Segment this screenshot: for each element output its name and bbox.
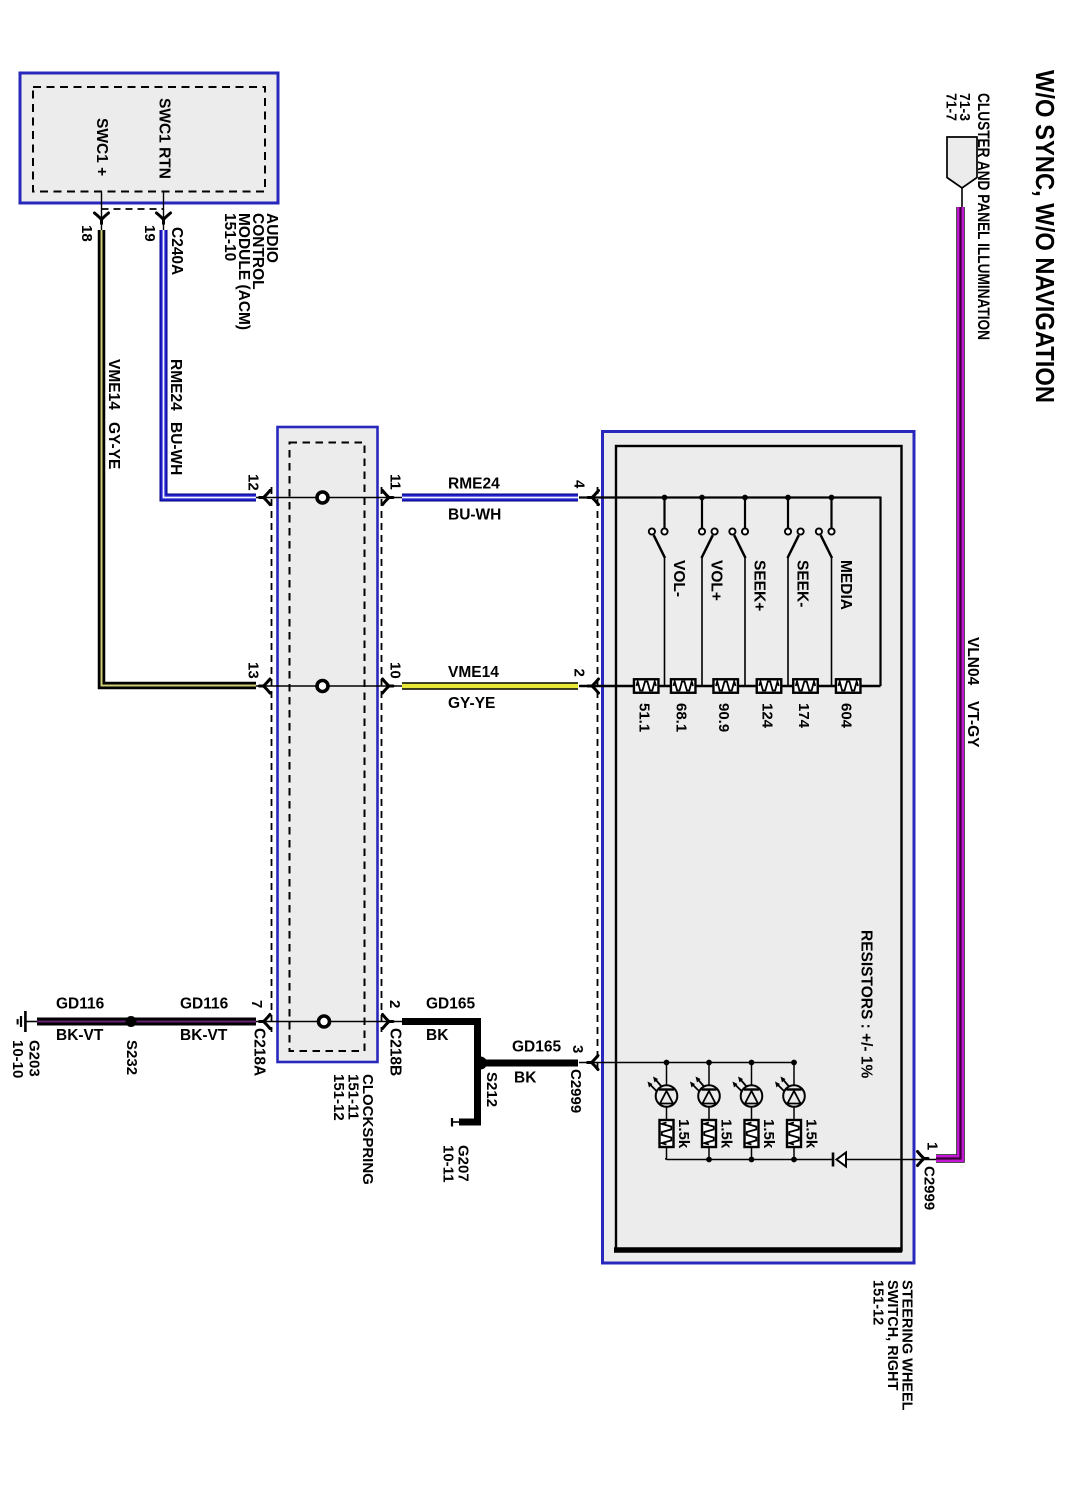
clockspring coil symbol row 1 bbox=[317, 492, 328, 503]
clockspring inner dashed boundary bbox=[290, 443, 365, 1052]
wire RME24 BU-WH from ACM pin 19 (vertical + horizontal) bbox=[164, 230, 257, 498]
svg-text:RME24: RME24 bbox=[448, 476, 500, 493]
switch SEEK- bbox=[787, 498, 789, 529]
svg-text:RESISTORS : +/- 1%: RESISTORS : +/- 1% bbox=[858, 930, 875, 1079]
switch VOL+ bbox=[701, 498, 703, 529]
connector C218B dashed line bbox=[381, 487, 383, 1032]
svg-text:BK: BK bbox=[514, 1070, 537, 1087]
svg-text:GD165: GD165 bbox=[426, 996, 475, 1013]
svg-text:13: 13 bbox=[245, 662, 262, 679]
svg-text:19: 19 bbox=[141, 225, 158, 242]
wire GD116 BK-VT ground to splice to clockspring bbox=[37, 1018, 256, 1026]
svg-text:GY-YE: GY-YE bbox=[448, 695, 495, 712]
resistor 68.1 ohm bbox=[671, 679, 696, 693]
svg-text:RME24: RME24 bbox=[167, 359, 184, 411]
ground G203 symbol bbox=[24, 1011, 27, 1032]
diode D1 bbox=[832, 1153, 835, 1167]
svg-text:2: 2 bbox=[571, 669, 588, 677]
svg-text:GD116: GD116 bbox=[56, 996, 105, 1013]
clockspring wire row pin7-pin2 bbox=[256, 1021, 402, 1023]
resistor 1.5k (3) bbox=[751, 1107, 753, 1120]
wire VLN04 VT-GY from flag to C2999 pin 1 bbox=[936, 207, 961, 1159]
switch inner solid boundary bbox=[616, 446, 902, 1251]
svg-text:3: 3 bbox=[569, 1045, 586, 1053]
ACM pin 18 stem bbox=[101, 192, 103, 232]
svg-text:11: 11 bbox=[387, 474, 404, 490]
resistor 124 ohm bbox=[757, 679, 782, 693]
svg-text:G20710-11: G20710-11 bbox=[440, 1145, 472, 1183]
svg-text:VT-GY: VT-GY bbox=[964, 701, 981, 748]
wire VME14 GY-YE from ACM pin 18 (vertical + horizontal) bbox=[102, 230, 257, 686]
resistor 1.5k (2) bbox=[708, 1107, 710, 1120]
continuation flag to cluster/panel illumination bbox=[947, 137, 977, 188]
svg-text:C218B: C218B bbox=[387, 1028, 404, 1076]
pin arrow 1 bbox=[918, 1152, 929, 1166]
pin arrow 12 bbox=[260, 491, 271, 505]
wire GD165 BK S212 to switch pin 3 bbox=[481, 1060, 578, 1067]
splice S212 bbox=[474, 1057, 487, 1070]
node: resistor chain bus (pin 2 net) bbox=[579, 685, 881, 688]
resistor 90.9 ohm bbox=[713, 679, 738, 693]
node: LED return bus bbox=[667, 1159, 834, 1161]
clockspring coil symbol row 2 bbox=[317, 681, 328, 692]
ACM pin 19 stem bbox=[163, 192, 165, 232]
svg-text:BU-WH: BU-WH bbox=[167, 422, 184, 475]
svg-text:VME14: VME14 bbox=[448, 664, 499, 681]
svg-text:VME14: VME14 bbox=[105, 359, 122, 410]
node: pin 3 net to LEDs bbox=[579, 1062, 794, 1064]
svg-text:18: 18 bbox=[78, 225, 95, 242]
svg-text:SWC1 +: SWC1 + bbox=[93, 118, 110, 176]
svg-text:C218A: C218A bbox=[251, 1028, 268, 1076]
clockspring wire row pin12-pin11 bbox=[256, 497, 402, 499]
pin arrow 4 bbox=[588, 491, 599, 505]
svg-text:90.9: 90.9 bbox=[715, 703, 732, 732]
LED 1 illumination bbox=[664, 1060, 670, 1066]
LED 3 illumination bbox=[749, 1060, 755, 1066]
svg-text:1: 1 bbox=[924, 1142, 941, 1150]
svg-text:BU-WH: BU-WH bbox=[448, 507, 501, 524]
svg-text:4: 4 bbox=[571, 480, 588, 489]
svg-text:SWC1 RTN: SWC1 RTN bbox=[156, 98, 173, 179]
svg-text:MEDIA: MEDIA bbox=[837, 560, 854, 610]
svg-text:GD116: GD116 bbox=[180, 996, 229, 1013]
connector pin arrow 18 bbox=[95, 213, 109, 224]
svg-text:51.1: 51.1 bbox=[636, 703, 653, 732]
svg-text:S232: S232 bbox=[123, 1040, 140, 1075]
pin arrow 2 (C218B) bbox=[383, 1015, 394, 1029]
svg-text:VLN04: VLN04 bbox=[964, 637, 981, 686]
steering wheel switch right box bbox=[603, 432, 915, 1264]
junction dot LED return 794 bbox=[791, 1157, 797, 1163]
resistor 51.1 ohm bbox=[634, 679, 659, 693]
resistor 1.5k (1) bbox=[666, 1107, 668, 1120]
switch MEDIA bbox=[830, 498, 832, 529]
svg-text:1.5k: 1.5k bbox=[675, 1119, 692, 1149]
svg-text:CLUSTER AND PANEL ILLUMINATION: CLUSTER AND PANEL ILLUMINATION bbox=[974, 93, 992, 340]
svg-text:C240A: C240A bbox=[168, 227, 185, 275]
ACM inner dashed boundary bbox=[33, 87, 265, 192]
splice S232 bbox=[126, 1016, 137, 1027]
pin arrow 11 bbox=[383, 491, 394, 505]
svg-text:71-7: 71-7 bbox=[943, 93, 960, 121]
resistor 174 ohm bbox=[793, 679, 818, 693]
clockspring coil symbol row 3 bbox=[319, 1016, 330, 1027]
switch inner boundary thick bottom bbox=[614, 1247, 902, 1253]
clockspring wire row pin13-pin10 bbox=[256, 685, 402, 687]
pin arrow 2 (C2999) bbox=[588, 679, 599, 693]
svg-text:GY-YE: GY-YE bbox=[105, 422, 122, 469]
svg-text:BK-VT: BK-VT bbox=[56, 1027, 104, 1044]
wire RME24 BU-WH clockspring to switch bbox=[402, 494, 578, 502]
svg-text:2: 2 bbox=[386, 1000, 403, 1008]
svg-text:10: 10 bbox=[387, 662, 404, 679]
connector C240A dashed link bbox=[102, 208, 164, 210]
ground G207 symbol bbox=[451, 1118, 453, 1127]
clockspring box bbox=[278, 427, 378, 1062]
switch VOL- bbox=[663, 498, 665, 529]
right bus vertical (to resistor 604) bbox=[879, 497, 881, 687]
svg-text:VOL+: VOL+ bbox=[708, 560, 725, 601]
Audio Control Module (ACM) box bbox=[20, 73, 278, 203]
wire VME14 GY-YE clockspring to switch bbox=[402, 682, 578, 690]
svg-text:C2999: C2999 bbox=[567, 1069, 584, 1113]
svg-text:1.5k: 1.5k bbox=[760, 1119, 777, 1149]
wire GD165 BK clockspring to S212 and ground G207 bbox=[402, 1022, 478, 1123]
node: switch common bus (pin 4 net) bbox=[579, 496, 881, 498]
svg-text:7: 7 bbox=[248, 1000, 265, 1008]
resistor 1.5k (4) bbox=[793, 1107, 795, 1120]
svg-text:BK-VT: BK-VT bbox=[180, 1027, 228, 1044]
svg-text:C2999: C2999 bbox=[921, 1166, 938, 1210]
svg-text:12: 12 bbox=[245, 474, 262, 491]
connector pin arrow 19 bbox=[157, 213, 171, 224]
pin arrow 13 bbox=[260, 679, 271, 693]
svg-text:1.5k: 1.5k bbox=[802, 1119, 819, 1149]
junction dot LED return 751.5 bbox=[749, 1157, 755, 1163]
svg-text:604: 604 bbox=[838, 703, 855, 729]
svg-text:SEEK+: SEEK+ bbox=[751, 560, 768, 611]
switch SEEK+ bbox=[744, 498, 746, 529]
svg-text:VOL-: VOL- bbox=[670, 560, 687, 597]
flag stem wire bbox=[961, 188, 963, 208]
svg-text:G20310-10: G20310-10 bbox=[9, 1040, 43, 1078]
connector C2999 dashed line bbox=[597, 487, 599, 1068]
junction dot LED return 709 bbox=[706, 1157, 712, 1163]
svg-text:174: 174 bbox=[795, 703, 812, 729]
svg-text:S212: S212 bbox=[483, 1072, 500, 1107]
svg-text:GD165: GD165 bbox=[512, 1039, 561, 1056]
svg-text:1.5k: 1.5k bbox=[717, 1119, 734, 1149]
svg-text:W/O SYNC, W/O NAVIGATION: W/O SYNC, W/O NAVIGATION bbox=[1030, 70, 1058, 403]
svg-text:BK: BK bbox=[426, 1027, 449, 1044]
svg-text:SEEK-: SEEK- bbox=[794, 560, 811, 607]
LED 2 illumination bbox=[706, 1060, 712, 1066]
LED 4 illumination bbox=[791, 1060, 797, 1066]
connector C218A dashed line bbox=[271, 487, 273, 1032]
svg-text:124: 124 bbox=[758, 703, 775, 729]
pin arrow 10 bbox=[383, 679, 394, 693]
pin arrow 7 bbox=[260, 1015, 271, 1029]
svg-text:68.1: 68.1 bbox=[673, 703, 690, 732]
resistor 604 ohm bbox=[836, 679, 861, 693]
pin arrow 3 bbox=[588, 1056, 599, 1070]
